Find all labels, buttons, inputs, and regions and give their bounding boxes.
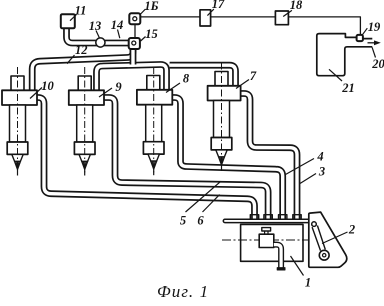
svg-text:17: 17 bbox=[212, 0, 225, 11]
pump axis dash-dot bbox=[222, 239, 313, 241]
svg-text:5: 5 bbox=[180, 214, 186, 228]
valve 19 bbox=[357, 35, 363, 41]
leader line 4 bbox=[286, 159, 315, 175]
block 17 bbox=[200, 10, 211, 26]
svg-text:13: 13 bbox=[89, 19, 102, 33]
nut injector 9 bbox=[74, 142, 95, 154]
pump top plate bbox=[223, 219, 309, 222]
svg-text:7: 7 bbox=[250, 69, 257, 83]
wire high-pressure pipe 6 from injector 10 to pump fitting A bbox=[37, 98, 255, 220]
wire feed continuation to injector 7 bbox=[170, 65, 236, 86]
pump fitting A bbox=[250, 215, 258, 220]
block 18 bbox=[275, 11, 288, 25]
nut injector 10 bbox=[7, 142, 28, 154]
svg-text:18: 18 bbox=[290, 0, 303, 12]
pivot small circle bbox=[312, 222, 317, 227]
leader line 9 bbox=[99, 88, 112, 97]
leader line 20 bbox=[372, 47, 375, 57]
stem injector 7 bbox=[215, 72, 228, 87]
stem injector 9 bbox=[78, 76, 91, 91]
pump fitting B bbox=[264, 215, 272, 220]
stem injector 10 bbox=[11, 76, 24, 91]
barrel injector 10 bbox=[10, 105, 26, 142]
leader line 10 bbox=[30, 88, 42, 99]
body injector 9 bbox=[69, 90, 104, 105]
leader line 1 bbox=[291, 256, 304, 276]
svg-text:12: 12 bbox=[75, 43, 88, 57]
leader line 8 bbox=[166, 83, 180, 93]
injector 7 bbox=[208, 63, 241, 172]
leader line 16 bbox=[141, 9, 146, 14]
leader line 18 bbox=[283, 10, 292, 16]
leader line 15 bbox=[141, 37, 146, 42]
nut injector 7 bbox=[211, 138, 232, 150]
pump fitting D bbox=[293, 215, 301, 220]
wire high-pressure pipe 4 from injector 8 to pump fitting C bbox=[172, 98, 283, 220]
svg-text:3: 3 bbox=[318, 165, 325, 179]
pump body 1 bbox=[241, 224, 303, 261]
barrel injector 8 bbox=[146, 105, 162, 142]
svg-text:9: 9 bbox=[115, 80, 122, 94]
svg-text:8: 8 bbox=[183, 72, 190, 86]
nozzle injector 10 bbox=[12, 154, 23, 161]
leader line 2 bbox=[322, 232, 348, 244]
leader line 17 bbox=[207, 9, 214, 16]
stem injector 8 bbox=[147, 76, 160, 91]
wire feed branch to injector 9 and across to injector 8 bbox=[97, 64, 167, 91]
leader line 13 bbox=[96, 31, 99, 38]
wire control line from sensor 16 through 17 and 18 to valve 19 bbox=[140, 17, 360, 35]
svg-text:14: 14 bbox=[111, 18, 124, 32]
drain pipe on pump bbox=[274, 245, 285, 270]
body injector 8 bbox=[137, 90, 172, 105]
electronic unit 11 bbox=[61, 14, 75, 28]
svg-text:21: 21 bbox=[341, 81, 355, 95]
leader line 11 bbox=[70, 15, 77, 21]
distributor 15 bbox=[129, 38, 140, 49]
injector 9 bbox=[69, 67, 104, 176]
wire feed manifold 12 riser and left arm to injector 10 bbox=[32, 46, 133, 92]
leader line 14 bbox=[118, 30, 120, 39]
svg-text:Фиг. 1: Фиг. 1 bbox=[157, 282, 209, 301]
svg-text:1: 1 bbox=[305, 276, 311, 290]
svg-text:6: 6 bbox=[197, 214, 204, 228]
wire riser tee junction below distributor 15 bbox=[130, 47, 137, 65]
nozzle injector 7 bbox=[216, 150, 227, 157]
svg-text:11: 11 bbox=[75, 4, 87, 18]
injector 10 bbox=[2, 67, 37, 176]
body injector 10 bbox=[2, 90, 37, 105]
svg-text:10: 10 bbox=[41, 79, 54, 93]
nut injector 8 bbox=[143, 142, 164, 154]
svg-text:2: 2 bbox=[348, 223, 355, 237]
wire link between sensor 16 and distributor 15 bbox=[134, 24, 136, 38]
leader line 21 bbox=[329, 69, 342, 81]
svg-text:20: 20 bbox=[371, 57, 384, 71]
wire high-pressure pipe 3 from injector 7 to pump fitting D bbox=[241, 94, 298, 220]
roller big circle bbox=[319, 250, 329, 260]
leader line 5 bbox=[186, 181, 221, 212]
inlet connector on pump bbox=[262, 228, 271, 231]
leader line 7 bbox=[236, 80, 249, 89]
svg-text:4: 4 bbox=[316, 150, 323, 164]
sensor 16 bbox=[129, 13, 140, 24]
leader line 12 bbox=[67, 55, 75, 64]
nozzle injector 8 bbox=[148, 154, 159, 161]
leader line 6 bbox=[203, 195, 220, 212]
wire high-pressure pipe 5 from injector 9 to pump fitting B bbox=[104, 98, 268, 220]
barrel injector 9 bbox=[77, 105, 93, 142]
leader line 3 bbox=[300, 174, 316, 184]
pulsator 13 bbox=[96, 38, 105, 47]
injector 8 bbox=[137, 67, 172, 175]
svg-text:1Б: 1Б bbox=[144, 0, 158, 13]
wire pipe from pump 11 to pulsator 13 and pipe 14 to distributor 15 bbox=[67, 28, 129, 43]
svg-text:19: 19 bbox=[368, 20, 381, 34]
governor bracket 2 bbox=[309, 212, 347, 267]
lever arm on bracket 2 bbox=[312, 226, 325, 251]
barrel injector 7 bbox=[214, 101, 230, 138]
fuel tank 21 bbox=[317, 34, 373, 76]
leader line 19 bbox=[362, 28, 367, 35]
svg-text:15: 15 bbox=[145, 27, 158, 41]
pump fitting C bbox=[279, 215, 287, 220]
outlet arrow 20 bbox=[368, 42, 375, 44]
nozzle injector 9 bbox=[79, 154, 90, 161]
body injector 7 bbox=[208, 86, 241, 101]
